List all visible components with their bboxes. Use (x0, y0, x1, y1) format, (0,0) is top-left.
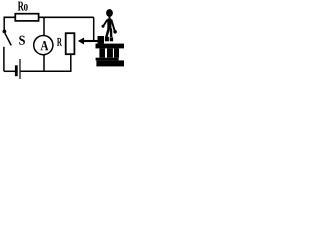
wire ammeter bottom stub (43, 55, 45, 72)
wire ammeter top stub (43, 17, 45, 35)
wire resistor R riser to bottom wire (70, 55, 72, 72)
label A inside ammeter (41, 41, 49, 50)
platform base (96, 60, 124, 66)
sensor block on platform (98, 36, 105, 44)
platform top bar (96, 44, 125, 49)
platform post right (114, 48, 119, 57)
label R (57, 38, 62, 46)
wire left vertical lower (switch to bottom wire) (3, 47, 5, 72)
arrow from platform pressing resistor R: shaft (84, 40, 99, 42)
switch S blade (5, 33, 11, 45)
battery negative plate (short thick) (15, 65, 18, 76)
person left leg and foot (106, 28, 109, 37)
platform post left (99, 48, 105, 57)
wire top (left corner to right corner) (4, 16, 94, 18)
wire bottom left (to battery) (4, 70, 15, 72)
person head (106, 9, 113, 17)
ammeter A circle (34, 36, 53, 55)
battery positive plate (long thin) (19, 59, 20, 79)
switch S terminal dot (3, 30, 7, 34)
person left arm (104, 20, 108, 26)
person right leg and foot (110, 28, 113, 37)
resistor R box (pressure sensor) (66, 33, 75, 54)
label R0 (18, 2, 24, 11)
person right arm (111, 20, 114, 31)
platform post middle (107, 48, 113, 57)
wire bottom right (battery to resistor R riser) (21, 70, 72, 72)
platform second bar (96, 58, 119, 61)
wire left vertical upper (corner down to switch) (3, 17, 5, 31)
label S (19, 36, 25, 45)
resistor R0 box (15, 14, 38, 21)
person neck and torso (109, 16, 111, 19)
wire right vertical (top wire down to arrow) (93, 17, 95, 41)
arrow head pointing left at resistor R (78, 38, 84, 45)
